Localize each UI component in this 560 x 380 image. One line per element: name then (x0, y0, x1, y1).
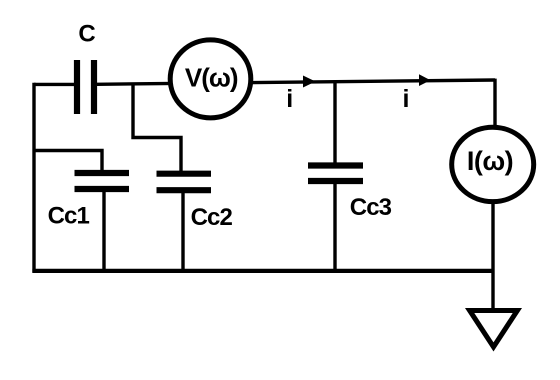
svg-text:Cc1: Cc1 (48, 203, 90, 230)
svg-text:Cc3: Cc3 (350, 194, 392, 221)
svg-text:Cc2: Cc2 (191, 204, 233, 231)
svg-text:V(ω): V(ω) (185, 63, 238, 93)
svg-text:i: i (286, 85, 293, 113)
svg-text:I(ω): I(ω) (467, 146, 513, 176)
svg-text:i: i (403, 85, 410, 113)
svg-text:C: C (78, 20, 95, 47)
